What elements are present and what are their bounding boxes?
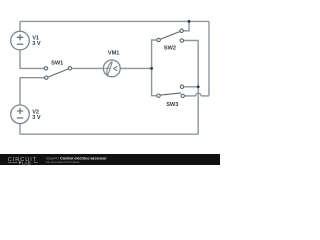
wire riser from bottom rail to SW2 throw C — [184, 41, 199, 135]
svg-text:3 V: 3 V — [32, 115, 41, 121]
wire SW3 throw C to right border with hop over riser — [185, 95, 196, 97]
wire SW3 throw A to riser — [184, 86, 198, 88]
voltmeter VM1 — [103, 60, 120, 77]
caption text — [46, 157, 107, 164]
svg-text:LAB: LAB — [22, 160, 31, 165]
svg-text:3 V: 3 V — [32, 41, 41, 47]
svg-text:SW1: SW1 — [51, 60, 63, 66]
SW2 lever — [160, 32, 180, 40]
SW1 lever — [48, 69, 68, 77]
wire V2 bottom stem — [19, 124, 21, 135]
voltage source V1 — [11, 31, 30, 50]
voltage source V2 — [11, 105, 30, 124]
node junction dot SW3 throw A to riser — [197, 85, 200, 88]
wire right border down to SW3 throw C level — [208, 21, 210, 96]
wire bottom rail — [20, 133, 198, 135]
switch SW3 — [157, 85, 185, 98]
svg-text:VM1: VM1 — [108, 51, 120, 57]
switch SW1 — [44, 67, 71, 80]
node junction dot on top rail — [188, 20, 191, 23]
switch SW2 — [157, 29, 184, 42]
wire top rail — [20, 20, 209, 22]
logo lightning bolt — [19, 160, 22, 165]
svg-text:http://circuitlab.com/c/7g3ka4: http://circuitlab.com/c/7g3ka4 — [46, 160, 80, 164]
wire SW1 common to VM1 — [72, 67, 104, 69]
svg-text:SW3: SW3 — [166, 102, 178, 108]
wire node X vertical (SW2 B to SW3 B) — [152, 40, 157, 96]
CircuitLab logo — [8, 157, 38, 165]
node junction dot VM1 to switch commons — [150, 67, 153, 70]
svg-text:SW2: SW2 — [164, 45, 176, 51]
SW3 lever — [160, 93, 181, 95]
wire SW1 throw 2 to V2 top — [20, 78, 45, 105]
wire V1 top stem — [19, 21, 21, 31]
wire VM1 to node X — [120, 67, 151, 69]
wire SW2 common pin to top rail junction — [183, 21, 189, 30]
watermark band — [0, 154, 220, 165]
wire V1 bottom to SW1 throw 1 — [20, 50, 44, 69]
